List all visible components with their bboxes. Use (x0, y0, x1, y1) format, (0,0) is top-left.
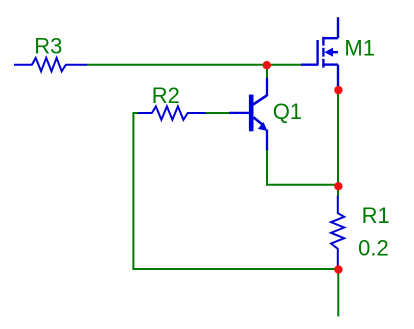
transistor Q1 (229, 78, 267, 151)
resistor R3 (14, 58, 88, 71)
svg-text:R2: R2 (152, 83, 180, 108)
svg-text:Q1: Q1 (273, 99, 302, 124)
wire left vertical (132, 112, 134, 269)
wire Q1 emitter to source node (267, 150, 338, 185)
junction node D (bottom) (334, 265, 342, 273)
junction node A (gate/collector) (263, 61, 271, 69)
wire bottom horizontal (132, 268, 338, 270)
resistor R1 (331, 196, 344, 267)
wire M1 source down to R1 (337, 88, 339, 197)
wire R3 to M1 gate (88, 64, 302, 66)
mosfet M1 (301, 17, 338, 88)
junction node C (emitter/source/R1) (334, 182, 342, 190)
svg-text:R3: R3 (34, 34, 62, 59)
wire R2 to Q1 base (206, 112, 230, 114)
wire below R1 (337, 270, 339, 317)
svg-text:M1: M1 (344, 36, 375, 61)
resistor R2 (138, 106, 207, 119)
wire R2 corner green stub (133, 112, 140, 114)
svg-text:0.2: 0.2 (358, 236, 389, 261)
wire Q1 collector to node (266, 64, 268, 79)
svg-text:R1: R1 (362, 203, 390, 228)
junction node B (M1 source) (334, 86, 342, 94)
